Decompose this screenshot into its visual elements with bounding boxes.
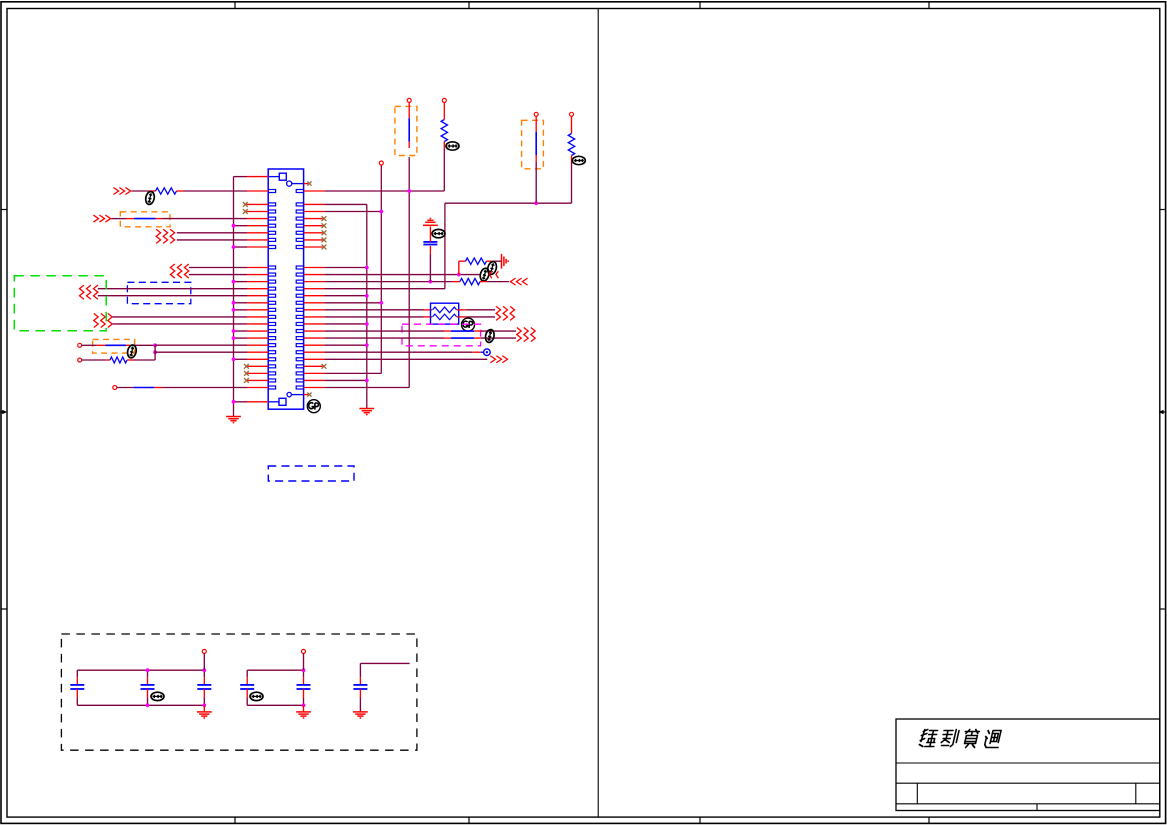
junction — [365, 379, 369, 383]
ground symbol rotated — [502, 254, 509, 269]
wire stub to bus — [234, 358, 248, 360]
vertical bus wire GND left — [233, 177, 235, 417]
bus wire bottom group1 — [77, 704, 204, 706]
wire — [458, 261, 460, 274]
centre arrow right — [1159, 410, 1166, 414]
ground symbol inverted — [423, 218, 438, 225]
wire — [304, 351, 325, 353]
wire — [304, 372, 325, 374]
ground symbol left bus — [226, 417, 241, 423]
no-connect X — [243, 209, 248, 214]
capacitor C2 — [70, 670, 84, 705]
resistor R4 — [459, 258, 502, 264]
port OUT rows331-338 — [517, 328, 535, 342]
wire — [203, 705, 205, 712]
no-connect X — [322, 230, 327, 235]
wire stub to bus — [234, 330, 248, 332]
no-connect X — [244, 364, 249, 369]
wire — [303, 705, 305, 712]
junction — [153, 343, 157, 347]
wire pad-to-bus top — [234, 176, 248, 178]
pin header circle C — [113, 386, 117, 390]
junction — [365, 343, 369, 347]
wire — [177, 239, 247, 241]
port IN rows267-275 — [170, 264, 188, 278]
wire — [111, 218, 126, 220]
designator C1 — [432, 229, 445, 237]
junction — [232, 224, 236, 228]
component FB1 (orange dashed) — [120, 212, 170, 227]
vertical wire net445 — [444, 203, 446, 288]
pin header circle A — [78, 343, 82, 347]
no-connect X — [307, 182, 311, 186]
port OUT rows310-317 — [496, 306, 514, 320]
decoupling group outline (black dashed) — [61, 634, 417, 750]
junction — [202, 668, 206, 672]
designator GP bottom — [307, 400, 320, 413]
vertical wire net444 — [443, 149, 445, 192]
ground symbol group2 — [296, 712, 311, 718]
junction — [379, 301, 383, 305]
no-connect X — [244, 371, 249, 376]
border zone tick top — [699, 2, 701, 9]
junction — [407, 189, 411, 193]
wire — [189, 274, 247, 276]
port IN rows289-296 — [80, 285, 98, 299]
junction — [202, 703, 206, 707]
resistor R3 — [441, 102, 447, 148]
wire — [189, 267, 247, 269]
wire — [98, 288, 247, 290]
border zone tick right — [1160, 608, 1165, 610]
port chevron a — [496, 271, 499, 278]
wire — [304, 281, 325, 283]
wire — [304, 302, 325, 304]
no-connect X — [322, 238, 327, 243]
junction — [232, 280, 236, 284]
border zone tick top — [234, 2, 236, 9]
junction — [365, 322, 369, 326]
border zone tick top — [928, 2, 930, 9]
designator GP mid — [462, 318, 475, 331]
border zone tick bottom — [468, 817, 470, 823]
no-connect stub — [248, 379, 269, 381]
port OUT row359 — [490, 356, 507, 363]
wire — [304, 323, 325, 325]
wire — [98, 295, 247, 297]
connector mounting pad top — [268, 173, 286, 180]
wire — [457, 316, 466, 318]
vertical wire net circle381 — [380, 165, 382, 373]
no-connect X — [244, 378, 249, 383]
border zone tick top — [468, 2, 470, 9]
junction — [232, 308, 236, 312]
wire — [429, 226, 431, 242]
no-connect X — [322, 216, 327, 221]
company name text — [919, 730, 1002, 748]
border zone tick bottom — [699, 817, 701, 823]
border zone tick right — [1160, 209, 1165, 211]
no-connect stub — [304, 232, 323, 234]
component FB2 (orange dashed) — [93, 339, 135, 353]
junction — [146, 668, 150, 672]
wire — [304, 358, 325, 360]
inductor L1 — [126, 218, 163, 220]
no-connect X — [243, 202, 248, 207]
port OUT rows317-324 — [94, 313, 112, 327]
component FB3 (orange dashed) — [395, 106, 417, 155]
resistor R1 — [149, 188, 184, 194]
junction — [232, 400, 236, 404]
wire — [304, 190, 325, 192]
wire — [487, 281, 509, 283]
wire stub to bus — [234, 302, 248, 304]
no-connect X — [322, 245, 327, 250]
junction — [365, 294, 369, 298]
bus wire bottom group2 — [247, 704, 303, 706]
no-connect stub — [304, 394, 309, 396]
junction — [153, 350, 157, 354]
junction — [379, 210, 383, 214]
capacitor C4 — [197, 670, 211, 705]
port IN row218 — [93, 215, 110, 222]
junction — [365, 266, 369, 270]
port IN row1 — [113, 188, 130, 195]
no-connect stub — [304, 365, 323, 367]
wire — [457, 309, 466, 311]
wire — [132, 190, 149, 192]
wire — [155, 351, 247, 353]
bus wire top group2 — [247, 669, 303, 671]
wire — [113, 323, 247, 325]
border zone tick bottom — [928, 817, 930, 823]
port chevron b — [489, 271, 492, 278]
designator RP2 — [484, 329, 495, 343]
wire — [304, 288, 325, 290]
no-connect stub — [247, 203, 269, 205]
connector index circle bottom — [287, 392, 304, 396]
junction — [232, 301, 236, 305]
junction — [429, 280, 433, 284]
junction — [457, 273, 461, 277]
power pin circle L3 — [407, 98, 411, 102]
ground symbol right — [359, 409, 374, 415]
junction — [232, 245, 236, 249]
capacitor C5 — [240, 670, 254, 705]
wire — [304, 330, 325, 332]
power pin circle group2 — [302, 649, 306, 653]
wire — [203, 653, 205, 670]
connector CON1 body — [268, 169, 303, 409]
port OUT rows232-240 — [156, 229, 174, 243]
junction — [232, 329, 236, 333]
sheet fold line — [597, 9, 599, 818]
no-connect stub — [247, 211, 269, 213]
wire — [304, 203, 325, 205]
junction — [534, 201, 538, 205]
matching network box (blue dashed) — [127, 282, 190, 303]
wire stub to bus — [234, 309, 248, 311]
capacitor C7 — [353, 685, 367, 689]
power pin circle L4 — [534, 112, 538, 116]
capacitor C3 — [141, 670, 155, 705]
wire stub to bus — [234, 337, 248, 339]
junction — [302, 668, 306, 672]
wire — [184, 190, 248, 192]
wire tri-color — [117, 387, 268, 389]
wire stub to bus — [234, 246, 248, 248]
wire — [113, 316, 247, 318]
no-connect stub — [248, 365, 269, 367]
option box (magenta dashed) — [402, 324, 481, 346]
wire stub to bus — [234, 225, 248, 227]
no-connect stub — [304, 183, 309, 185]
wire — [177, 232, 247, 234]
capacitor C1 — [423, 242, 437, 245]
resistor R6 — [568, 116, 574, 203]
border zone tick bottom — [234, 817, 236, 823]
designator R4b — [486, 261, 497, 276]
no-connect stub — [304, 225, 323, 227]
designator R3 — [446, 142, 459, 150]
no-connect stub — [248, 372, 269, 374]
ground symbol group1 — [197, 712, 212, 718]
junction — [232, 357, 236, 361]
no-connect X — [322, 364, 327, 369]
no-connect stub — [304, 239, 323, 241]
wire — [359, 689, 361, 698]
wire — [304, 274, 325, 276]
designator C3 — [151, 692, 164, 700]
power pin circle group1 — [202, 649, 206, 653]
designator R6 — [572, 156, 585, 164]
no-connect X — [307, 393, 311, 397]
designator R4a — [479, 267, 490, 282]
note box (blue dashed) — [268, 466, 354, 481]
designator C5 — [250, 692, 263, 700]
wire — [163, 218, 248, 220]
connector CON1 right pin row — [296, 190, 303, 390]
junction — [146, 703, 150, 707]
wire — [155, 344, 247, 346]
no-connect stub — [304, 246, 323, 248]
resistor R2 — [82, 357, 155, 363]
inductor L4 — [535, 116, 537, 203]
ground symbol group3 — [353, 712, 368, 718]
wire — [304, 387, 325, 389]
wire — [154, 345, 156, 360]
no-connect X — [322, 223, 327, 228]
connector mounting pad bottom — [268, 398, 286, 405]
power pin circle R6 — [570, 112, 574, 116]
component FB4 (orange dashed) — [522, 120, 544, 169]
resistor pack RP1 — [431, 303, 459, 324]
module outline (green dashed) — [14, 276, 106, 331]
junction — [302, 703, 306, 707]
junction — [232, 336, 236, 340]
pin header circle D — [379, 161, 383, 165]
test point TP1 — [484, 349, 491, 356]
border zone tick left — [1, 608, 7, 610]
inductor L2 — [82, 344, 155, 346]
connector CON1 left pin row — [268, 190, 275, 390]
wire — [429, 254, 431, 282]
designator R1 — [145, 191, 156, 205]
centre arrow left — [0, 410, 7, 414]
wire pad-to-bus bottom — [234, 401, 248, 403]
bus wire top group1 — [77, 669, 204, 671]
vertical wire GND right — [366, 204, 368, 408]
wire — [303, 653, 305, 670]
wire stub to bus — [234, 281, 248, 283]
wire — [304, 316, 325, 318]
wire — [304, 267, 325, 269]
wire — [304, 309, 325, 311]
no-connect stub — [304, 218, 323, 220]
border zone tick left — [1, 209, 7, 211]
power pin circle R3 — [442, 98, 446, 102]
wire — [304, 211, 325, 213]
wire — [304, 344, 325, 346]
wire group3 feed — [360, 662, 409, 664]
pin header circle B — [78, 358, 82, 362]
designator L2 — [126, 344, 137, 358]
capacitor C6 — [297, 670, 311, 705]
port IN row282 — [510, 278, 527, 285]
title block — [896, 719, 1160, 811]
connector index circle top — [287, 181, 304, 186]
wire rail 203 — [445, 202, 572, 204]
wire — [304, 337, 325, 339]
inductor L3 — [408, 102, 410, 148]
vertical wire net409 — [408, 157, 410, 388]
wire — [304, 379, 325, 381]
resistor R5 — [453, 278, 487, 284]
wire — [304, 295, 325, 297]
